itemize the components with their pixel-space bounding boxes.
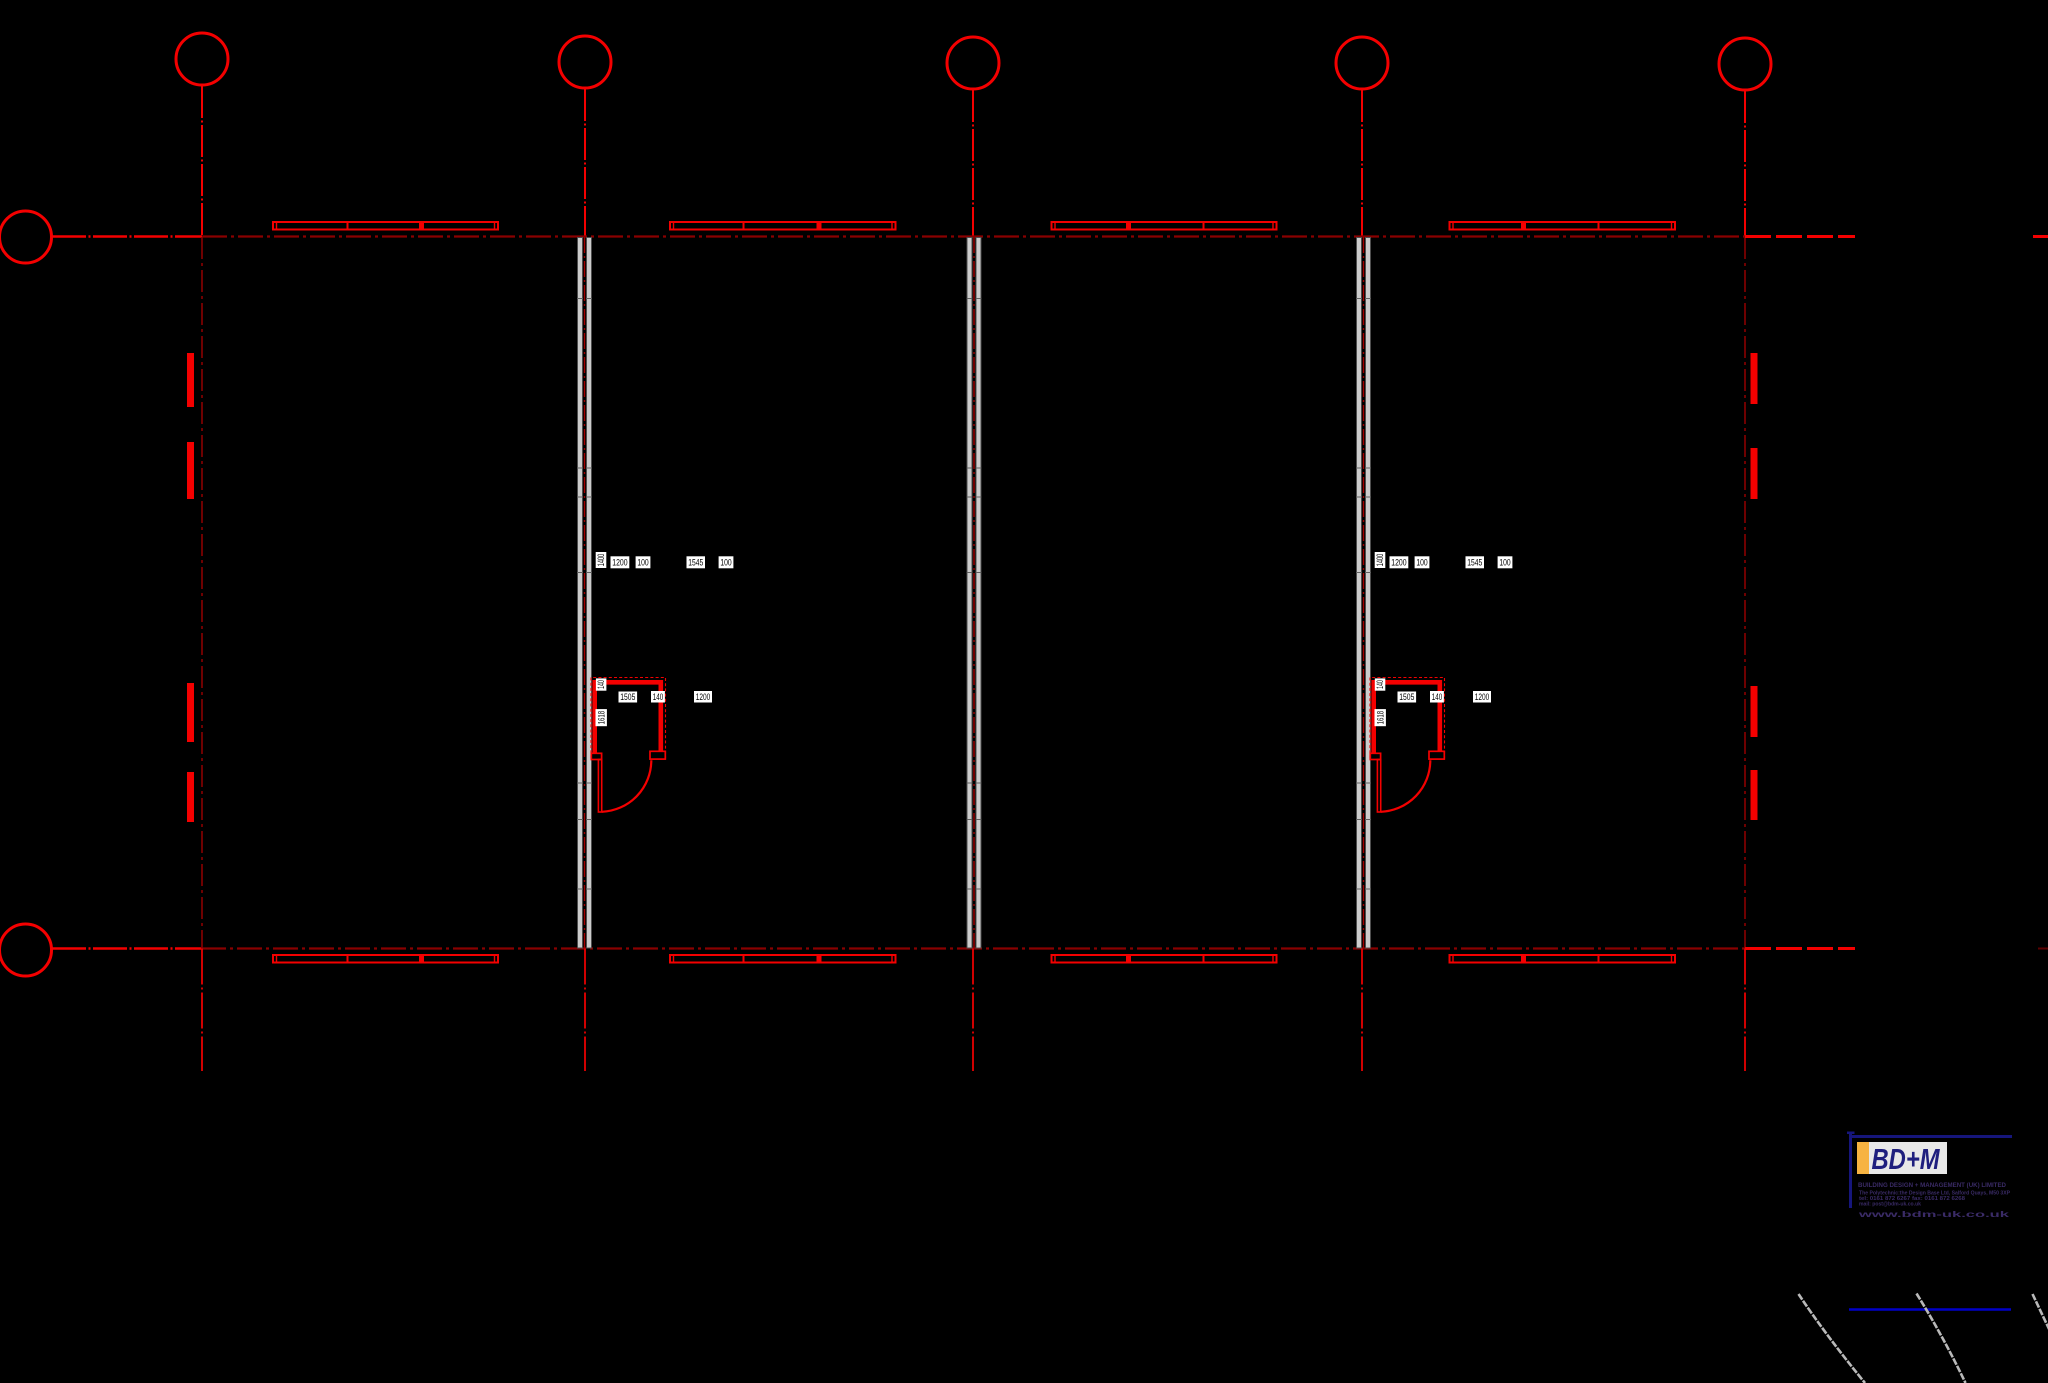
svg-text:mail: post@bdm-uk.co.uk: mail: post@bdm-uk.co.uk (1859, 1202, 1921, 1208)
dimension 140 unit 1 (door) (651, 691, 665, 703)
dimension 100 unit 1 row1a (636, 556, 651, 568)
svg-text:1618: 1618 (1375, 711, 1385, 725)
dimension 1505 unit 1 (619, 692, 638, 703)
grid A leader (52, 235, 202, 237)
svg-text:140: 140 (1375, 680, 1385, 689)
grid 1 leader (bubble to plan) (201, 86, 203, 237)
BD+M logo box (1857, 1142, 1947, 1176)
door jamb left unit 2 (1370, 753, 1380, 759)
riser cupboard walls (thick) unit 1 (595, 682, 661, 754)
title block border (blue horizontal rule) (1849, 1135, 2012, 1138)
svg-text:1545: 1545 (688, 557, 703, 567)
grid bubble 2 (top) (559, 36, 611, 88)
dimension 1618 unit 2 (vertical) (1375, 709, 1386, 726)
party wall on grid 4 (double leaf) (1356, 238, 1371, 949)
grid bubble A (left, row A) (0, 211, 52, 263)
dimension 140 unit 2 (door) (1430, 691, 1444, 703)
dimension 1200 unit 1 row1 (611, 556, 630, 568)
svg-text:BUILDING DESIGN + MANAGEMENT (: BUILDING DESIGN + MANAGEMENT (UK) LIMITE… (1858, 1182, 2007, 1189)
grid bubble 4 (top) (1336, 37, 1388, 89)
dimension 1618 unit 1 (vertical) (596, 709, 607, 726)
title block border (blue vertical rule) (1847, 1132, 1855, 1209)
dimension 1200 unit 2 row1 (1390, 556, 1409, 568)
door jamb left unit 1 (591, 753, 601, 759)
grid bubble 5 (top) (1719, 38, 1771, 90)
grid B leader (52, 947, 201, 949)
dimension 1545 unit 1 (687, 556, 706, 568)
svg-text:www.bdm-uk.co.uk: www.bdm-uk.co.uk (1857, 1209, 2009, 1219)
window strip bay 1 (south elevation) (273, 955, 498, 963)
dimension 1400 unit 1 (vertical) (596, 552, 607, 568)
grid 2 leader (bubble to plan) (584, 89, 586, 237)
grid line B edge dash (far right) (2038, 948, 2048, 950)
grid line A (horizontal, dash-dot) (202, 235, 1745, 237)
grid line 1 (vertical, dash-dot) (201, 237, 203, 948)
svg-text:1200: 1200 (696, 692, 711, 702)
grid 5 bottom tail (1744, 949, 1746, 1072)
grid 3 leader (bubble to plan) (972, 90, 974, 237)
window strip bay 1 (north elevation) (273, 222, 498, 230)
grid line 4 centreline within wall (1363, 237, 1365, 948)
party wall on grid 3 (double leaf) (967, 238, 982, 949)
window strip bay 2 (south elevation) (670, 955, 896, 963)
party wall on grid 2 (double leaf) (577, 238, 592, 949)
svg-text:100: 100 (720, 557, 731, 567)
compartment line (right, thick red dashes) (1751, 353, 1758, 404)
dimension 100 unit 2 row1b (1498, 556, 1513, 568)
grid line 3 centreline within wall (973, 237, 975, 948)
door jamb right unit 1 (650, 751, 665, 759)
svg-text:100: 100 (1416, 557, 1427, 567)
grid line 5 (vertical, dash-dot) (1744, 237, 1746, 948)
window strip bay 4 (north elevation) (1450, 222, 1676, 230)
svg-text:1505: 1505 (1399, 692, 1414, 702)
svg-text:1200: 1200 (612, 557, 627, 567)
svg-text:140: 140 (653, 692, 663, 702)
svg-text:140: 140 (596, 680, 606, 689)
door leaf unit 1 (598, 760, 601, 813)
grid line A bright segment (right) (1745, 235, 1855, 238)
grid 2 bottom tail (584, 949, 586, 1072)
svg-text:1200: 1200 (1391, 557, 1406, 567)
svg-text:100: 100 (1499, 557, 1510, 567)
svg-text:BD+M: BD+M (1872, 1144, 1941, 1176)
grid line B (horizontal, dash-dot) (201, 947, 1745, 949)
contour line 3 (grey, edge) (2033, 1294, 2048, 1331)
riser cupboard outline (dashed boundary) unit 1 (591, 678, 666, 759)
grid line A edge dash (far right) (2033, 235, 2048, 238)
svg-text:100: 100 (637, 557, 648, 567)
window strip bay 3 (north elevation) (1052, 222, 1277, 230)
grid line B bright segment (right) (1745, 947, 1855, 950)
dimension 1505 unit 2 (1398, 692, 1417, 703)
svg-text:140: 140 (1432, 692, 1442, 702)
window strip bay 3 (south elevation) (1052, 955, 1277, 963)
door swing arc unit 2 (1381, 760, 1430, 812)
svg-text:1400: 1400 (596, 554, 606, 567)
svg-text:1545: 1545 (1467, 557, 1482, 567)
door swing arc unit 1 (602, 760, 651, 812)
grid 1 bottom tail (201, 949, 203, 1072)
dimension 100 unit 2 row1a (1415, 556, 1430, 568)
dimension 140 unit 1 (wall) (vertical) (596, 678, 607, 690)
grid 4 bottom tail (1361, 949, 1363, 1072)
dimension 1400 unit 2 (vertical) (1375, 552, 1386, 568)
svg-text:1505: 1505 (620, 692, 635, 702)
grid line 2 centreline within wall (584, 237, 586, 948)
svg-text:1400: 1400 (1375, 554, 1385, 567)
grid bubble B (left, row B) (0, 924, 52, 976)
svg-text:1200: 1200 (1475, 692, 1490, 702)
door leaf unit 2 (1377, 760, 1380, 813)
dimension 1545 unit 2 (1466, 556, 1485, 568)
riser cupboard walls (thick) unit 2 (1374, 682, 1440, 754)
grid bubble 1 (top) (176, 33, 228, 85)
door jamb right unit 2 (1429, 751, 1444, 759)
riser cupboard outline (dashed boundary) unit 2 (1370, 678, 1445, 759)
dimension 1200 unit 2 row2 (1473, 691, 1491, 703)
window strip bay 4 (south elevation) (1450, 955, 1676, 963)
dimension 1200 unit 1 row2 (694, 691, 712, 703)
blue reference line (bottom right) (1849, 1308, 2011, 1310)
contour line 2 (grey) (1917, 1294, 1966, 1383)
grid bubble 3 (top) (947, 37, 999, 89)
contour line 1 (grey) (1799, 1294, 1866, 1383)
compartment line (left, thick red dashes) (187, 353, 194, 407)
grid 3 bottom tail (972, 949, 974, 1072)
svg-text:1618: 1618 (596, 711, 606, 725)
grid 5 leader (bubble to plan) (1744, 91, 1746, 237)
dimension 100 unit 1 row1b (719, 556, 734, 568)
dimension 140 unit 2 (wall) (vertical) (1375, 678, 1386, 690)
grid 4 leader (bubble to plan) (1361, 90, 1363, 237)
window strip bay 2 (north elevation) (670, 222, 896, 230)
